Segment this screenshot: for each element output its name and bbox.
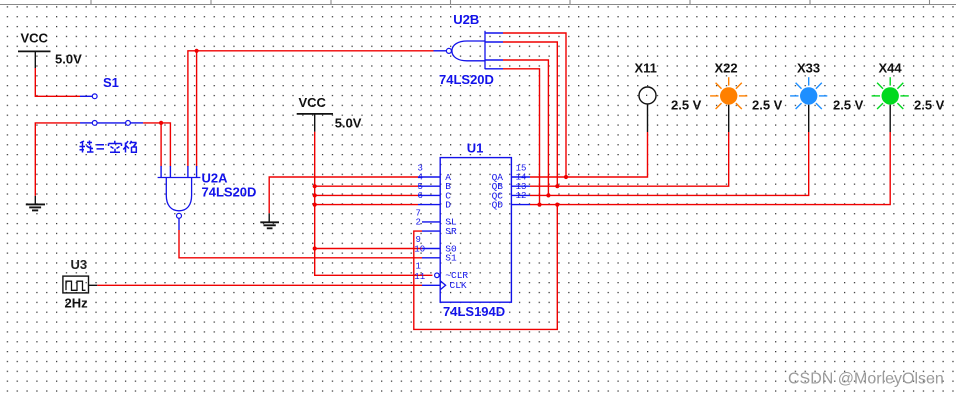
svg-text:X33: X33: [797, 61, 820, 76]
svg-text:74LS20D: 74LS20D: [202, 185, 257, 200]
junction dot QB: [555, 184, 559, 188]
ground symbol GND1: [26, 196, 45, 211]
power source V1 VCC 5.0V: [18, 31, 82, 69]
junction dot U2B output: [195, 49, 199, 53]
junction dot QD feedback: [555, 203, 559, 207]
junction dot C row: [313, 193, 317, 197]
svg-text:U2A: U2A: [202, 171, 229, 186]
label key = space: [80, 141, 137, 153]
wire U3 to CLK: [97, 284, 422, 286]
wire VCC2 to pin C: [315, 194, 418, 196]
wire QC to lamp X33: [530, 132, 809, 195]
wire QD feedback to SR: [414, 205, 558, 330]
svg-text:CSDN @MorleyOlsen: CSDN @MorleyOlsen: [788, 371, 944, 388]
svg-text:S1: S1: [103, 75, 119, 90]
ground symbol GND2: [260, 213, 279, 228]
svg-text:5.0V: 5.0V: [335, 116, 362, 131]
wire ground to switch bottom throw: [35, 123, 80, 196]
wire U2B input3 to QC row: [503, 60, 548, 195]
wire U2A output to U1 pin S1: [179, 230, 422, 258]
svg-text:QD: QD: [492, 200, 504, 211]
svg-text:VCC: VCC: [299, 95, 327, 110]
lamp X44 2.5V green: [872, 61, 945, 133]
power source V2 VCC 5.0V: [297, 95, 362, 132]
wire QA to lamp X11: [530, 132, 648, 177]
wire junction: [160, 123, 162, 167]
svg-text:U3: U3: [71, 257, 88, 272]
svg-text:2.5 V: 2.5 V: [752, 98, 783, 113]
junction dot D row: [313, 203, 317, 207]
svg-text:S1: S1: [445, 253, 457, 264]
shift register U1 74LS194D: [414, 141, 530, 320]
clock source U3 2Hz: [63, 257, 97, 311]
NAND gate U2A 74LS20D: [158, 166, 257, 230]
lamp X33 2.5V blue: [790, 61, 864, 133]
svg-text:D: D: [445, 200, 451, 211]
wire: [196, 51, 198, 167]
wire QD to lamp X44: [530, 132, 890, 205]
wire U2B input4 to QD row: [503, 69, 540, 205]
svg-text:12: 12: [516, 191, 527, 201]
lamp X11 2.5V: [635, 61, 702, 133]
wire ground to pin A: [269, 177, 418, 213]
svg-text:2.5 V: 2.5 V: [914, 98, 945, 113]
svg-text:2.5 V: 2.5 V: [671, 98, 702, 113]
junction dot B row: [313, 184, 317, 188]
wire U2B output to U2A inputs 3-4: [188, 51, 434, 167]
svg-text:1: 1: [416, 262, 421, 272]
wire VCC2 bus down to CLR: [315, 132, 433, 275]
wire U2B input1 to QA row: [503, 33, 566, 177]
junction dot QA: [564, 175, 568, 179]
wire U2B input2 to QB row: [503, 42, 557, 186]
junction dot switch row: [159, 121, 163, 125]
wire VCC to switch top throw: [35, 68, 80, 96]
svg-text:U1: U1: [467, 141, 484, 156]
wire QB to lamp X22: [530, 132, 729, 186]
svg-text:74LS194D: 74LS194D: [443, 304, 505, 319]
svg-text:X11: X11: [635, 61, 657, 76]
wire VCC2 to pin S0: [315, 248, 422, 250]
svg-text:74LS20D: 74LS20D: [439, 72, 494, 87]
junction dot QD: [537, 203, 541, 207]
svg-text:VCC: VCC: [21, 31, 49, 46]
svg-text:6: 6: [418, 191, 423, 201]
svg-text:X22: X22: [715, 61, 738, 76]
NAND gate U2B 74LS20D: [434, 12, 504, 87]
switch S1: [80, 75, 143, 125]
junction dot S0 row: [313, 246, 317, 250]
wire VCC2 to pin B: [315, 185, 418, 187]
lamp X22 2.5V orange: [710, 61, 783, 133]
svg-text:2Hz: 2Hz: [65, 296, 89, 311]
svg-text:SR: SR: [445, 226, 457, 237]
junction dot QC: [546, 193, 550, 197]
wire switch pole to U2A inputs 1-2: [143, 123, 170, 167]
svg-text:2: 2: [416, 218, 421, 228]
svg-text:X44: X44: [879, 61, 903, 76]
svg-text:11: 11: [414, 272, 425, 282]
svg-text:U2B: U2B: [453, 12, 479, 27]
svg-text:CLK: CLK: [450, 280, 467, 291]
svg-text:5.0V: 5.0V: [55, 52, 82, 67]
svg-text:2.5 V: 2.5 V: [833, 98, 864, 113]
svg-text:10: 10: [414, 244, 425, 254]
wire VCC2 to pin D: [315, 204, 418, 206]
